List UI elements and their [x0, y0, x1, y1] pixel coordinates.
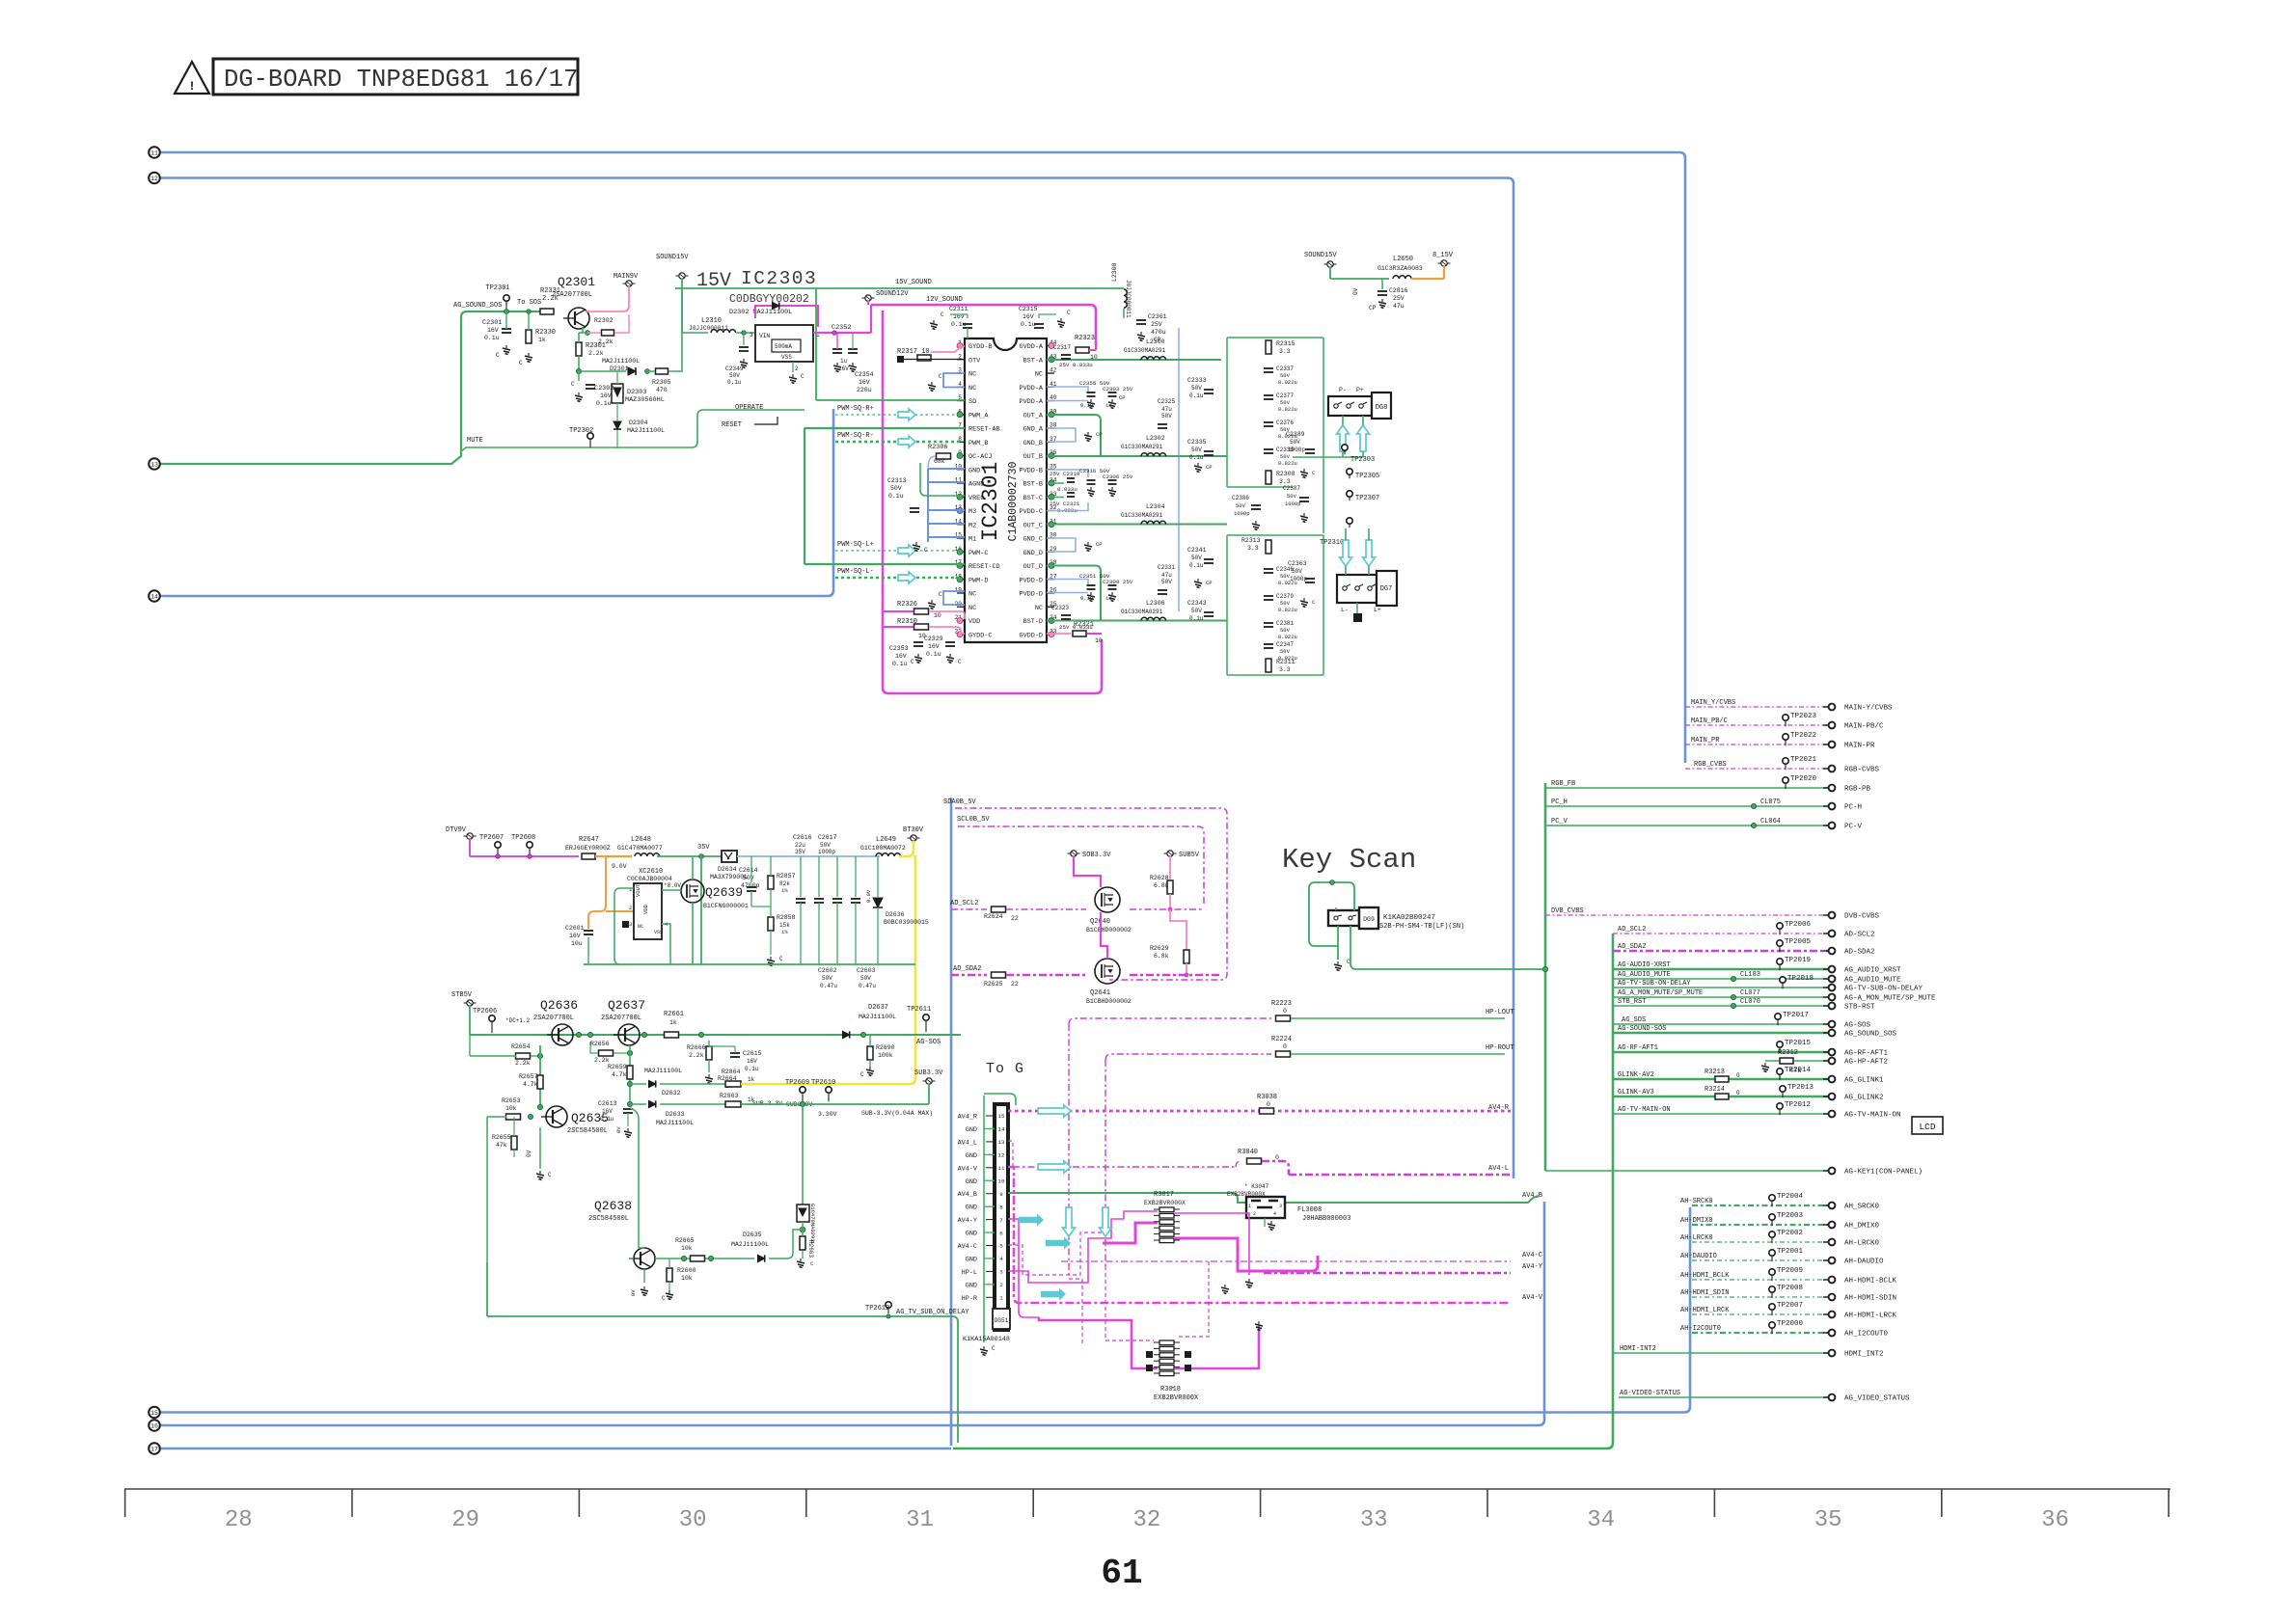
- svg-text:C: C: [924, 547, 928, 554]
- svg-text:R2305: R2305: [652, 379, 671, 386]
- svg-text:AV4_R: AV4_R: [958, 1114, 977, 1122]
- svg-text:C2329: C2329: [924, 636, 943, 642]
- svg-text:SOUND12V: SOUND12V: [876, 290, 909, 298]
- svg-text:*8.0V: *8.0V: [664, 882, 681, 889]
- svg-text:C2387: C2387: [1283, 485, 1300, 492]
- svg-text:MAIN-PB/C: MAIN-PB/C: [1844, 723, 1884, 731]
- svg-text:C0DBGYY00202: C0DBGYY00202: [729, 293, 809, 306]
- svg-text:22u: 22u: [795, 842, 805, 849]
- svg-text:50V: 50V: [1191, 555, 1202, 561]
- svg-text:PVDD-A: PVDD-A: [1020, 385, 1044, 392]
- svg-text:PC_H: PC_H: [1551, 798, 1568, 806]
- svg-text:AD_SCL2: AD_SCL2: [950, 900, 978, 907]
- svg-text:AV4_L: AV4_L: [958, 1139, 977, 1147]
- svg-text:0: 0: [1283, 1008, 1287, 1015]
- svg-text:R2311: R2311: [1276, 659, 1296, 665]
- svg-text:1000p: 1000p: [1288, 447, 1305, 453]
- svg-text:SUB5V: SUB5V: [1179, 852, 1200, 859]
- svg-text:14: 14: [150, 593, 158, 600]
- svg-text:OPERATE: OPERATE: [735, 404, 763, 412]
- svg-text:AH-HDMI_BCLK: AH-HDMI_BCLK: [1680, 1272, 1730, 1280]
- svg-text:C2317: C2317: [1053, 344, 1071, 351]
- svg-text:R2330: R2330: [535, 329, 556, 337]
- svg-text:AD-SDA2: AD-SDA2: [1844, 949, 1875, 957]
- svg-text:DVB_CVBS: DVB_CVBS: [1551, 907, 1584, 915]
- svg-text:C2376: C2376: [1276, 420, 1294, 426]
- svg-text:C2363: C2363: [1288, 560, 1307, 567]
- svg-text:CP: CP: [1119, 394, 1126, 401]
- svg-text:D2303: D2303: [627, 389, 646, 396]
- svg-text:C: C: [860, 1071, 864, 1078]
- svg-text:L2300: L2300: [1146, 338, 1165, 345]
- svg-text:10k: 10k: [681, 1245, 693, 1252]
- svg-text:C: C: [801, 373, 805, 380]
- svg-text:2SA207700L: 2SA207700L: [601, 1015, 641, 1022]
- svg-text:0.022u: 0.022u: [1278, 607, 1297, 613]
- svg-text:GYDD-B: GYDD-B: [968, 343, 992, 351]
- svg-text:R2653: R2653: [502, 1097, 521, 1104]
- svg-text:3: 3: [1279, 1204, 1282, 1209]
- svg-text:AG-VIDEO-STATUS: AG-VIDEO-STATUS: [1620, 1390, 1680, 1397]
- svg-text:RGB_CVBS: RGB_CVBS: [1694, 761, 1727, 769]
- svg-text:* K3047: * K3047: [1244, 1183, 1269, 1190]
- svg-text:50V: 50V: [1290, 439, 1300, 446]
- svg-text:PC-H: PC-H: [1844, 804, 1862, 812]
- svg-text:AG-TV-SUB-ON-DELAY: AG-TV-SUB-ON-DELAY: [1844, 986, 1923, 993]
- svg-text:2: 2: [1253, 1211, 1256, 1217]
- svg-text:C: C: [548, 1172, 552, 1178]
- svg-text:1: 1: [1248, 1204, 1251, 1209]
- svg-text:B1CBHD000002: B1CBHD000002: [1086, 998, 1132, 1005]
- svg-text:R2301: R2301: [586, 342, 606, 350]
- svg-text:AG-KEY1(CON-PANEL): AG-KEY1(CON-PANEL): [1844, 1169, 1923, 1177]
- svg-text:TP2019: TP2019: [1785, 957, 1811, 964]
- svg-text:25V: 25V: [1151, 321, 1162, 328]
- svg-text:AV4-C: AV4-C: [1522, 1252, 1542, 1259]
- svg-text:9: 9: [999, 1191, 1003, 1198]
- svg-text:0.1u: 0.1u: [888, 493, 904, 500]
- svg-text:0.1u: 0.1u: [596, 400, 612, 407]
- svg-text:0.1u: 0.1u: [1080, 595, 1093, 602]
- svg-text:PWM-SQ-R+: PWM-SQ-R+: [837, 405, 874, 413]
- svg-text:R2313: R2313: [1241, 537, 1261, 544]
- svg-text:D2634: D2634: [718, 866, 737, 873]
- svg-text:0.47u: 0.47u: [820, 983, 837, 989]
- svg-text:K1KA02B00247: K1KA02B00247: [1383, 914, 1435, 922]
- svg-text:SCL0B_5V: SCL0B_5V: [957, 816, 990, 824]
- svg-text:TP2012: TP2012: [1785, 1101, 1811, 1109]
- svg-text:2: 2: [795, 365, 799, 372]
- svg-text:TP2310: TP2310: [1320, 539, 1344, 547]
- svg-text:BST-C: BST-C: [1023, 495, 1043, 502]
- svg-text:R2312: R2312: [1778, 1049, 1798, 1057]
- svg-text:220u: 220u: [857, 387, 872, 393]
- svg-text:50V: 50V: [1191, 385, 1202, 392]
- svg-text:0.1u: 0.1u: [1189, 454, 1204, 461]
- svg-text:35V: 35V: [697, 844, 710, 852]
- svg-text:L2302: L2302: [1146, 435, 1165, 442]
- svg-text:AV4-V: AV4-V: [1522, 1294, 1543, 1302]
- svg-text:47u: 47u: [1161, 572, 1172, 579]
- svg-text:0.1u: 0.1u: [892, 661, 908, 667]
- svg-text:R2628: R2628: [1150, 875, 1169, 881]
- svg-text:0.1u: 0.1u: [484, 335, 500, 341]
- svg-text:SOB3.3V: SOB3.3V: [1082, 852, 1111, 859]
- svg-text:IC2303: IC2303: [741, 268, 817, 289]
- svg-text:PVDD-D: PVDD-D: [1020, 591, 1043, 599]
- svg-text:PWM-SQ-L+: PWM-SQ-L+: [837, 541, 874, 549]
- svg-text:TP2015: TP2015: [1785, 1040, 1812, 1047]
- svg-text:25V 0.033u: 25V 0.033u: [1059, 624, 1093, 631]
- svg-text:VIN: VIN: [759, 333, 770, 339]
- svg-text:0.1u: 0.1u: [1021, 321, 1036, 328]
- svg-text:R2625: R2625: [984, 981, 1003, 988]
- svg-text:BST-B: BST-B: [1023, 481, 1043, 489]
- svg-text:0.022u: 0.022u: [1278, 406, 1297, 413]
- svg-text:R2863: R2863: [720, 1093, 739, 1099]
- svg-text:EXB2BVR000X: EXB2BVR000X: [1227, 1191, 1266, 1198]
- svg-text:TP2000: TP2000: [1777, 1320, 1804, 1328]
- svg-text:AG-TV-MAIN-ON: AG-TV-MAIN-ON: [1618, 1106, 1671, 1114]
- svg-text:50V: 50V: [890, 485, 902, 492]
- svg-text:TP2007: TP2007: [1777, 1302, 1803, 1310]
- svg-text:R2657: R2657: [519, 1073, 538, 1080]
- svg-text:C2303 25V: C2303 25V: [1103, 386, 1133, 392]
- svg-text:TP2303: TP2303: [1350, 456, 1375, 464]
- svg-text:3.3: 3.3: [1279, 348, 1291, 355]
- svg-text:2: 2: [629, 905, 632, 911]
- svg-text:50V: 50V: [820, 842, 831, 849]
- svg-text:C2325: C2325: [1158, 398, 1175, 405]
- svg-text:M3: M3: [968, 508, 976, 516]
- svg-text:R3017: R3017: [1154, 1191, 1174, 1199]
- svg-text:NC: NC: [638, 924, 643, 930]
- svg-text:GND_C: GND_C: [1023, 536, 1043, 544]
- svg-text:DTV9V: DTV9V: [446, 826, 467, 834]
- svg-text:MAIN-Y/CVBS: MAIN-Y/CVBS: [1844, 705, 1893, 713]
- svg-text:TP2018: TP2018: [1787, 975, 1814, 983]
- svg-text:DG9: DG9: [1363, 916, 1375, 923]
- svg-text:0.1u: 0.1u: [951, 321, 967, 328]
- svg-text:!: !: [188, 79, 196, 94]
- svg-text:HDMI-INT2: HDMI-INT2: [1620, 1345, 1656, 1353]
- svg-text:Q2301: Q2301: [558, 275, 595, 289]
- svg-text:STB-RST: STB-RST: [1844, 1004, 1875, 1012]
- svg-text:2SA207700L: 2SA207700L: [533, 1015, 574, 1022]
- svg-text:XC2610: XC2610: [639, 868, 663, 876]
- svg-text:C: C: [939, 591, 942, 598]
- svg-text:0: 0: [1736, 1072, 1740, 1079]
- svg-text:OUT_A: OUT_A: [1023, 412, 1044, 420]
- svg-text:AG-HP-AFT2: AG-HP-AFT2: [1844, 1059, 1888, 1067]
- svg-text:G1C330MA0291: G1C330MA0291: [1121, 609, 1163, 615]
- svg-text:R2317 10: R2317 10: [897, 348, 930, 356]
- svg-text:AH-DAUDIO: AH-DAUDIO: [1844, 1259, 1884, 1266]
- svg-text:TP2302: TP2302: [569, 427, 593, 435]
- svg-text:TP2013: TP2013: [1787, 1084, 1814, 1092]
- svg-text:HDMI_INT2: HDMI_INT2: [1844, 1351, 1884, 1359]
- svg-text:2.2k: 2.2k: [689, 1052, 704, 1059]
- svg-text:AD_SDA2: AD_SDA2: [953, 965, 981, 973]
- svg-text:0V: 0V: [615, 1126, 622, 1133]
- svg-text:L2650: L2650: [1393, 256, 1413, 263]
- svg-text:25V 0.033u: 25V 0.033u: [1059, 362, 1093, 368]
- svg-text:0: 0: [1736, 1090, 1740, 1096]
- svg-text:C2361: C2361: [1148, 313, 1167, 320]
- svg-text:R3213: R3213: [1705, 1069, 1725, 1076]
- svg-text:10k: 10k: [681, 1275, 693, 1282]
- svg-text:AG-RF-AFT1: AG-RF-AFT1: [1618, 1044, 1658, 1052]
- svg-text:OTV: OTV: [968, 357, 981, 365]
- svg-text:TP2001: TP2001: [1777, 1248, 1804, 1256]
- svg-text:HP-LOUT: HP-LOUT: [1486, 1009, 1514, 1016]
- svg-text:C2601: C2601: [565, 925, 585, 932]
- svg-text:ERJ6GEY0R00Z: ERJ6GEY0R00Z: [565, 845, 611, 852]
- svg-text:C2617: C2617: [818, 834, 837, 841]
- svg-text:AV4-Y: AV4-Y: [1522, 1263, 1543, 1271]
- svg-text:PC-V: PC-V: [1844, 824, 1863, 831]
- svg-text:TP2606: TP2606: [473, 1008, 497, 1015]
- svg-text:AV4-Y: AV4-Y: [958, 1217, 977, 1225]
- svg-text:AG_AUDIO_MUTE: AG_AUDIO_MUTE: [1844, 977, 1901, 985]
- svg-text:C2602: C2602: [818, 967, 837, 974]
- svg-text:TP2301: TP2301: [485, 284, 509, 292]
- svg-text:C2381: C2381: [1276, 620, 1294, 627]
- svg-text:GND_B: GND_B: [1023, 440, 1043, 447]
- svg-text:TP2307: TP2307: [1355, 495, 1379, 502]
- svg-text:GLINK-AV3: GLINK-AV3: [1618, 1089, 1654, 1096]
- svg-text:AG_SOS: AG_SOS: [1622, 1016, 1646, 1024]
- svg-text:C2313: C2313: [887, 477, 907, 484]
- svg-text:C: C: [911, 659, 914, 665]
- svg-text:DG8: DG8: [1376, 404, 1388, 412]
- svg-text:AH-LRCK0: AH-LRCK0: [1680, 1234, 1713, 1242]
- svg-text:2SA207700L: 2SA207700L: [552, 291, 592, 299]
- svg-text:VDD: VDD: [968, 618, 980, 626]
- svg-text:470u: 470u: [1151, 329, 1166, 336]
- svg-text:C: C: [571, 381, 575, 388]
- svg-text:C2613: C2613: [598, 1100, 617, 1107]
- svg-text:AV4-V: AV4-V: [958, 1165, 978, 1173]
- svg-text:L+: L+: [1374, 607, 1381, 613]
- svg-text:AH-HDMI-SDIN: AH-HDMI-SDIN: [1844, 1295, 1896, 1303]
- svg-text:AG_GLINK1: AG_GLINK1: [1844, 1077, 1884, 1085]
- svg-text:8_15V: 8_15V: [1432, 252, 1454, 259]
- svg-text:1u: 1u: [1105, 595, 1112, 602]
- svg-text:TP2002: TP2002: [1777, 1230, 1803, 1237]
- svg-text:AG_GLINK2: AG_GLINK2: [1844, 1095, 1884, 1102]
- svg-text:31: 31: [906, 1507, 934, 1533]
- svg-text:BT30V: BT30V: [903, 826, 924, 834]
- svg-text:13: 13: [998, 1139, 1005, 1146]
- svg-text:DG-BOARD TNP8EDG81 16/17: DG-BOARD TNP8EDG81 16/17: [224, 66, 578, 94]
- svg-text:2.2k: 2.2k: [588, 350, 604, 357]
- svg-text:3.30V: 3.30V: [818, 1111, 837, 1118]
- svg-text:AD_SDA2: AD_SDA2: [1618, 943, 1646, 951]
- svg-text:AD-SCL2: AD-SCL2: [1844, 932, 1875, 939]
- svg-text:AH-HDMI-BCLK: AH-HDMI-BCLK: [1844, 1278, 1897, 1286]
- svg-text:15k: 15k: [779, 922, 790, 929]
- svg-text:PWM-SQ-L-: PWM-SQ-L-: [837, 568, 874, 576]
- svg-text:50V: 50V: [1280, 600, 1291, 607]
- svg-text:35V: 35V: [795, 849, 805, 855]
- svg-text:50V: 50V: [1161, 413, 1172, 420]
- svg-text:Key Scan: Key Scan: [1282, 844, 1416, 876]
- svg-text:R2315: R2315: [1276, 340, 1296, 347]
- svg-text:RGB_FB: RGB_FB: [1551, 780, 1575, 788]
- svg-text:Q2641: Q2641: [1090, 989, 1110, 997]
- svg-text:0.0V: 0.0V: [865, 889, 872, 903]
- svg-text:4: 4: [999, 1256, 1003, 1262]
- svg-text:50V: 50V: [1280, 453, 1291, 460]
- svg-text:AG_VIDEO_STATUS: AG_VIDEO_STATUS: [1844, 1395, 1910, 1403]
- svg-text:C2349: C2349: [725, 365, 744, 372]
- svg-text:CL075: CL075: [1760, 798, 1781, 806]
- svg-text:GND: GND: [966, 1178, 977, 1186]
- svg-text:L2649: L2649: [876, 836, 896, 844]
- svg-text:FL3008: FL3008: [1297, 1206, 1322, 1214]
- svg-text:Q2636: Q2636: [540, 998, 578, 1013]
- svg-text:29: 29: [451, 1507, 479, 1533]
- svg-text:50V: 50V: [1191, 608, 1202, 614]
- svg-text:13: 13: [150, 461, 158, 468]
- svg-text:R2302: R2302: [594, 317, 614, 324]
- svg-text:NC: NC: [968, 605, 976, 612]
- svg-text:AH-HDMI_LRCK: AH-HDMI_LRCK: [1680, 1307, 1730, 1314]
- svg-text:GND_A: GND_A: [1023, 426, 1044, 434]
- svg-text:TP2005: TP2005: [1785, 938, 1812, 946]
- svg-text:GVDD-D: GVDD-D: [1020, 632, 1043, 639]
- svg-text:C2341: C2341: [1187, 547, 1207, 554]
- svg-text:19: 19: [955, 587, 963, 594]
- svg-text:1k: 1k: [538, 337, 546, 343]
- svg-text:NC: NC: [1035, 371, 1043, 379]
- svg-text:1u: 1u: [1105, 402, 1112, 409]
- svg-text:MUTE: MUTE: [467, 437, 483, 445]
- svg-text:MA2J11100L: MA2J11100L: [859, 1014, 896, 1020]
- svg-text:2SC584500L: 2SC584500L: [567, 1127, 608, 1135]
- svg-text:R2310: R2310: [897, 618, 917, 626]
- svg-text:50V: 50V: [1280, 399, 1291, 406]
- svg-text:10: 10: [998, 1177, 1005, 1184]
- svg-text:R2308: R2308: [1276, 471, 1296, 477]
- svg-text:470: 470: [656, 387, 668, 393]
- svg-text:R2647: R2647: [579, 836, 599, 844]
- svg-text:Q2639: Q2639: [705, 885, 743, 900]
- svg-text:C2323: C2323: [1051, 605, 1069, 611]
- svg-text:12: 12: [998, 1152, 1005, 1159]
- svg-text:D2302 MA2J11100L: D2302 MA2J11100L: [729, 309, 792, 316]
- svg-text:AG-SOS: AG-SOS: [1844, 1022, 1871, 1030]
- svg-text:STB5V: STB5V: [451, 991, 473, 999]
- svg-text:22: 22: [1011, 915, 1019, 922]
- svg-text:VSS: VSS: [781, 354, 792, 361]
- svg-text:10u: 10u: [571, 940, 583, 947]
- svg-text:4.7k: 4.7k: [523, 1081, 538, 1088]
- svg-text:47u: 47u: [1161, 406, 1172, 413]
- svg-text:0: 0: [1267, 1101, 1270, 1108]
- svg-text:J0JJC000011: J0JJC000011: [689, 325, 728, 332]
- svg-text:4.7k: 4.7k: [612, 1071, 627, 1078]
- svg-text:16V: 16V: [895, 653, 907, 660]
- svg-text:R2323: R2323: [1075, 335, 1095, 342]
- svg-text:GND: GND: [966, 1256, 977, 1263]
- svg-text:50V: 50V: [1287, 493, 1297, 500]
- svg-text:AG_SOUND_SOS: AG_SOUND_SOS: [453, 302, 502, 310]
- svg-text:36: 36: [2041, 1507, 2069, 1533]
- svg-text:MAZ30560HL: MAZ30560HL: [625, 396, 665, 404]
- svg-text:11: 11: [150, 149, 158, 156]
- svg-text:R2660: R2660: [677, 1267, 696, 1274]
- svg-text:*: *: [1171, 1386, 1175, 1393]
- svg-text:MA2J11100L: MA2J11100L: [627, 427, 665, 434]
- svg-text:AH-I2COUT0: AH-I2COUT0: [1680, 1325, 1721, 1333]
- svg-text:1000p: 1000p: [1285, 501, 1301, 507]
- svg-text:MA2J11100L: MA2J11100L: [602, 358, 640, 365]
- svg-text:AG-A_MON_MUTE/SP_MUTE: AG-A_MON_MUTE/SP_MUTE: [1844, 995, 1936, 1003]
- svg-text:NC: NC: [968, 385, 976, 392]
- svg-text:0.1u: 0.1u: [926, 651, 941, 658]
- svg-text:G1C330MA0291: G1C330MA0291: [1121, 444, 1163, 450]
- svg-text:AH-DAUDIO: AH-DAUDIO: [1680, 1253, 1717, 1260]
- svg-text:MA2J11100L: MA2J11100L: [656, 1120, 694, 1126]
- svg-text:R2656: R2656: [590, 1041, 610, 1047]
- svg-text:TP2608: TP2608: [511, 834, 535, 842]
- svg-text:12: 12: [150, 176, 158, 182]
- svg-text:D2636: D2636: [886, 911, 905, 918]
- svg-text:OUT_C: OUT_C: [1023, 522, 1043, 529]
- svg-text:CL183: CL183: [1740, 971, 1760, 979]
- svg-text:CP: CP: [1206, 580, 1213, 586]
- svg-text:G1C330MA0291: G1C330MA0291: [1124, 347, 1166, 354]
- svg-text:GND: GND: [966, 1231, 977, 1238]
- svg-text:R2654: R2654: [511, 1043, 531, 1050]
- svg-text:MAIN-PR: MAIN-PR: [1844, 743, 1875, 750]
- svg-text:L2310: L2310: [701, 317, 722, 325]
- svg-text:50V: 50V: [1280, 627, 1291, 634]
- svg-text:1: 1: [999, 1295, 1003, 1302]
- svg-text:B1CBHD000002: B1CBHD000002: [1086, 927, 1132, 934]
- svg-text:RESET: RESET: [722, 421, 742, 429]
- svg-text:50V: 50V: [729, 372, 740, 379]
- svg-text:SUB-3.3V(0.04A MAX): SUB-3.3V(0.04A MAX): [861, 1110, 933, 1117]
- svg-text:Q2637: Q2637: [608, 998, 645, 1013]
- svg-text:AV4-R: AV4-R: [1488, 1104, 1510, 1112]
- svg-text:R2665: R2665: [675, 1237, 695, 1244]
- svg-text:G1C100MA0072: G1C100MA0072: [860, 845, 906, 852]
- svg-text:C2311: C2311: [949, 306, 968, 312]
- svg-text:50V: 50V: [1161, 579, 1172, 585]
- svg-text:6.8k: 6.8k: [1154, 953, 1169, 960]
- svg-text:RESET-CD: RESET-CD: [968, 563, 1000, 571]
- svg-text:50V: 50V: [1280, 573, 1291, 580]
- svg-text:R2858: R2858: [777, 914, 796, 921]
- svg-text:0.1u: 0.1u: [1080, 402, 1093, 409]
- svg-text:2SC584500L: 2SC584500L: [588, 1215, 629, 1223]
- svg-text:PVDD-C: PVDD-C: [1020, 508, 1043, 516]
- svg-text:HP-R: HP-R: [962, 1295, 977, 1303]
- svg-text:0.1u: 0.1u: [727, 379, 742, 386]
- svg-text:61: 61: [1101, 1554, 1142, 1593]
- svg-text:B1CFNG000001: B1CFNG000001: [703, 903, 749, 909]
- svg-text:TP2021: TP2021: [1790, 756, 1817, 764]
- svg-text:NC: NC: [968, 371, 976, 379]
- svg-text:AH-SRCK0: AH-SRCK0: [1680, 1198, 1713, 1205]
- svg-text:R2624: R2624: [984, 913, 1003, 920]
- svg-text:0V: 0V: [1352, 287, 1359, 295]
- svg-text:C2614: C2614: [739, 867, 758, 874]
- svg-text:AH-HDMI_SDIN: AH-HDMI_SDIN: [1680, 1289, 1729, 1297]
